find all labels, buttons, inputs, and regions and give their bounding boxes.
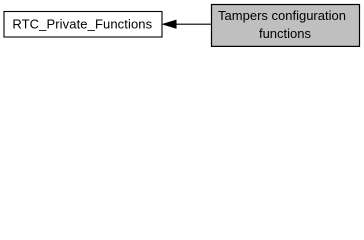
edge wire (shaft) [176,23,212,25]
edge arrowhead [162,20,176,29]
svg-text:functions: functions [259,26,312,41]
node Tampers configuration functions box (current, grey) [212,5,360,47]
node RTC_Private_Functions box [4,12,162,38]
svg-text:Tampers configuration: Tampers configuration [218,8,346,23]
background [0,0,364,52]
svg-text:RTC_Private_Functions: RTC_Private_Functions [12,17,152,32]
